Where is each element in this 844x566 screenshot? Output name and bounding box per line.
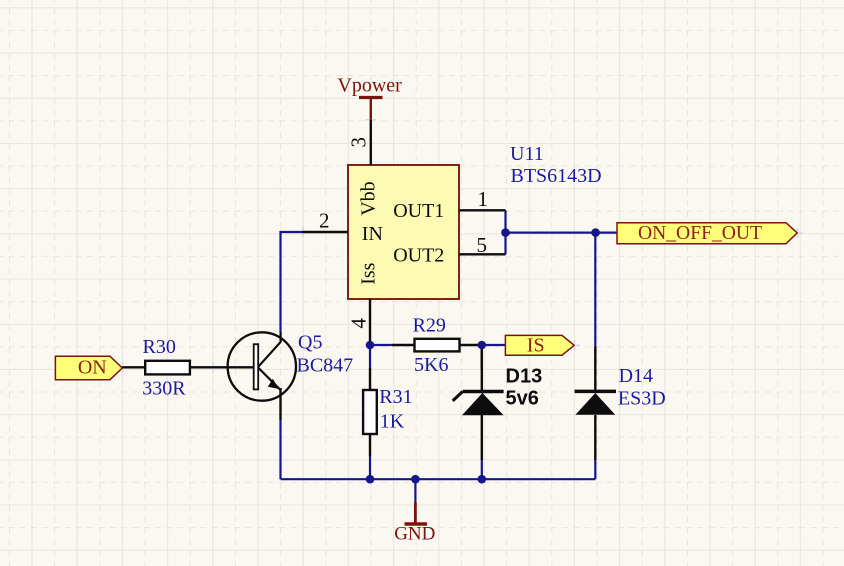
node: hotspot cross at Vpower pin junction: [366, 115, 376, 125]
resistor R31: [363, 368, 377, 456]
op-amp U1: IC U11 BTS6143D body: [348, 165, 459, 299]
value BC847: [297, 355, 354, 377]
node: junction rail/D13: [478, 475, 487, 484]
node: junction rail/GND: [411, 475, 420, 484]
svg-text:R29: R29: [413, 315, 446, 337]
wire: net from IN pin elbow down to Q5 collector: [281, 232, 304, 332]
node: junction IS/D13: [478, 341, 487, 350]
designator Q5: [298, 332, 322, 354]
pin 5 (OUT2): [459, 253, 506, 255]
pin name OUT1: [393, 200, 444, 222]
svg-text:5v6: 5v6: [506, 387, 539, 409]
value 5v6: [506, 387, 539, 409]
wire: Iss node to R29: [370, 344, 392, 346]
svg-text:IN: IN: [362, 223, 383, 245]
pin number 3: [347, 137, 371, 148]
svg-text:BC847: BC847: [297, 355, 354, 377]
svg-text:OUT1: OUT1: [393, 200, 444, 222]
svg-text:D13: D13: [506, 365, 543, 387]
pin name IN: [362, 223, 383, 245]
wire: IS node down to D13 cathode: [481, 346, 483, 369]
resistor R30: [122, 361, 254, 375]
label 330R: [142, 377, 186, 399]
label R29: [413, 315, 446, 337]
wire: R29 to IS node and IS port: [482, 344, 506, 346]
wire: OUT1/OUT2 tie vertical: [504, 210, 506, 254]
designator D13: [506, 365, 543, 387]
designator U11: [510, 143, 544, 165]
svg-text:Iss: Iss: [358, 262, 380, 284]
diode D14: [575, 347, 616, 461]
pin number 4: [347, 318, 371, 329]
node: junction OUT tie: [501, 228, 510, 237]
label 5K6: [414, 354, 448, 376]
node: hotspot cross at ON port tip: [118, 362, 128, 372]
resistor R29: [392, 339, 482, 352]
svg-text:330R: 330R: [142, 377, 186, 399]
svg-text:3: 3: [347, 137, 371, 148]
node: hotspot cross at ON_OFF_OUT port tip: [793, 228, 803, 238]
svg-text:IS: IS: [527, 334, 545, 356]
port IS: [505, 334, 574, 356]
svg-text:1K: 1K: [380, 411, 405, 433]
svg-text:U11: U11: [510, 143, 544, 165]
node: hotspot cross at IS port tip: [570, 340, 580, 350]
pin 3 (Vbb): [370, 120, 372, 165]
pin number 5: [477, 233, 488, 257]
pin 1 (OUT1): [459, 209, 506, 211]
wire: D14 cathode up to output net: [594, 233, 596, 347]
svg-text:5K6: 5K6: [414, 354, 448, 376]
svg-text:R31: R31: [379, 386, 412, 408]
node: junction output/D14: [591, 228, 600, 237]
wire: R31 bottom to ground rail: [369, 456, 371, 479]
svg-text:GND: GND: [394, 524, 435, 545]
pin 2 (IN): [302, 231, 348, 233]
node: hotspot cross at R30/Q5 base junction: [208, 362, 218, 372]
label R30: [143, 336, 176, 358]
label R31: [379, 386, 412, 408]
wire: Q5 emitter down to ground rail: [279, 420, 281, 479]
value ES3D: [618, 387, 666, 409]
svg-text:R30: R30: [143, 336, 176, 358]
svg-text:2: 2: [319, 208, 330, 232]
power port Vpower: [337, 75, 402, 121]
svg-text:ES3D: ES3D: [618, 387, 666, 409]
pin name OUT2: [393, 245, 444, 267]
port ON: [55, 356, 122, 380]
pin number 2: [319, 208, 330, 232]
svg-text:ON_OFF_OUT: ON_OFF_OUT: [638, 222, 762, 244]
wire: output net to ON_OFF_OUT port: [506, 232, 618, 234]
svg-text:Vpower: Vpower: [337, 75, 402, 97]
wire: D13 anode to ground rail: [481, 460, 483, 479]
wire: Iss node down to R31: [369, 345, 371, 368]
value BTS6143D: [511, 165, 602, 187]
port ON_OFF_OUT: [617, 222, 797, 244]
pin 4 (Iss): [369, 299, 371, 345]
pin name Vbb: [358, 181, 380, 215]
svg-text:Vbb: Vbb: [358, 181, 380, 215]
diode D13 (zener): [453, 346, 504, 460]
transistor Q5: [228, 332, 296, 420]
label 1K: [380, 411, 405, 433]
svg-text:D14: D14: [619, 365, 653, 387]
svg-text:1: 1: [478, 187, 489, 211]
node: junction Iss/R29/R31: [366, 341, 375, 350]
node: hotspot cross at IN pin end: [298, 227, 308, 237]
svg-text:BTS6143D: BTS6143D: [511, 165, 602, 187]
node: junction rail/R31: [366, 475, 375, 484]
svg-text:5: 5: [477, 233, 488, 257]
svg-text:ON: ON: [78, 357, 107, 379]
ground GND: [394, 503, 435, 545]
wire: GND stem upper segment: [414, 479, 416, 502]
wire: D14 anode to ground rail: [594, 460, 596, 479]
pin name Iss: [358, 262, 380, 284]
designator D14: [619, 365, 653, 387]
pin number 1: [478, 187, 489, 211]
svg-text:OUT2: OUT2: [393, 245, 444, 267]
svg-text:Q5: Q5: [298, 332, 322, 354]
wire: ground rail: [281, 478, 596, 480]
svg-text:4: 4: [347, 318, 371, 329]
